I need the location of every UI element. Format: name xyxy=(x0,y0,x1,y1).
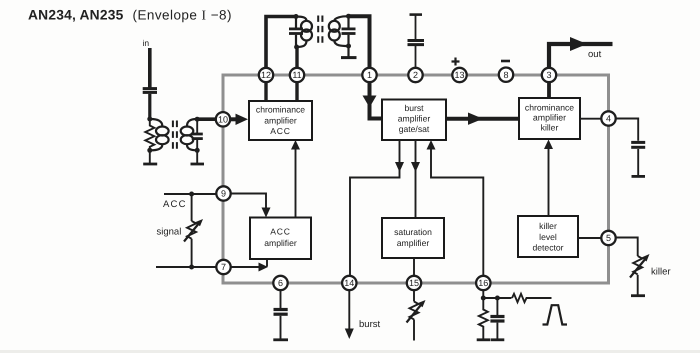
svg-text:15: 15 xyxy=(409,278,419,288)
svg-text:7: 7 xyxy=(221,262,226,272)
pulse waveform symbol xyxy=(543,305,568,324)
svg-text:amplifier: amplifier xyxy=(398,113,431,123)
variable resistor pin 15 xyxy=(407,283,423,341)
junction dots ACC signal xyxy=(189,192,194,270)
series capacitor input xyxy=(143,89,157,119)
svg-text:chrominance: chrominance xyxy=(256,105,305,115)
wire: pin 1 down into burst block with arrow xyxy=(370,75,383,119)
svg-text:amplifier: amplifier xyxy=(397,238,430,248)
ground killer pot xyxy=(631,294,645,297)
block chrominance amplifier killer xyxy=(519,98,580,139)
wire: pin 12 down to chrominance ACC block xyxy=(264,75,267,101)
junction dots pin 16 xyxy=(481,296,500,301)
wire: right tank top to pin 1 xyxy=(349,16,370,75)
wire: pin12 up and over to left tank top xyxy=(266,17,296,76)
title AN234, AN235 (Envelope I-8) xyxy=(28,8,232,23)
ground at pin 4 capacitor xyxy=(632,175,646,178)
wire: killer level detector up arrow into killer amp xyxy=(548,148,550,216)
wire: pin 10 arrow into chrominance ACC block xyxy=(230,117,237,121)
wire: in down to series capacitor xyxy=(148,48,152,88)
svg-text:killer: killer xyxy=(539,221,557,231)
capacitor pin 16 xyxy=(490,298,504,340)
svg-text:3: 3 xyxy=(546,70,551,80)
svg-text:amplifier: amplifier xyxy=(533,112,566,122)
inductor right tank coil xyxy=(329,16,349,46)
wire: killer level detector to pin 5 xyxy=(578,237,609,239)
svg-text:2: 2 xyxy=(413,70,418,80)
wire: pin 16 junction xyxy=(482,283,484,298)
capacitor right tank xyxy=(342,16,356,46)
svg-text:(Envelope I −8): (Envelope I −8) xyxy=(133,8,232,23)
block ACC amplifier xyxy=(250,218,311,260)
wire: burst block down arrow to saturation amplifier xyxy=(415,140,417,218)
wire: pin 5 to killer pot xyxy=(609,238,638,257)
svg-text:detector: detector xyxy=(532,243,563,253)
svg-text:16: 16 xyxy=(478,278,488,288)
svg-text:out: out xyxy=(588,49,602,60)
wire: pin 14 burst arrow down xyxy=(348,283,350,329)
svg-text:5: 5 xyxy=(606,233,611,243)
svg-text:burst: burst xyxy=(404,103,424,113)
svg-text:ACC: ACC xyxy=(163,199,187,210)
svg-text:amplifier: amplifier xyxy=(264,115,297,125)
capacitor at pin 2 with top ground xyxy=(408,15,425,75)
capacitor input secondary xyxy=(192,119,203,150)
plus label above pin 13 xyxy=(452,58,460,66)
svg-text:signal: signal xyxy=(157,227,182,238)
svg-text:level: level xyxy=(539,232,557,242)
wire: pin 9 to ACC amplifier with down arrow xyxy=(224,194,267,209)
svg-text:saturation: saturation xyxy=(394,227,432,237)
variable resistor ACC signal xyxy=(184,194,200,267)
wire: input tank to pin 10 xyxy=(197,117,216,121)
svg-text:AN234, AN235: AN234, AN235 xyxy=(28,8,124,23)
svg-text:ACC: ACC xyxy=(270,227,291,237)
svg-text:in: in xyxy=(143,38,150,48)
inductor input secondary xyxy=(181,119,198,150)
svg-text:9: 9 xyxy=(221,189,226,199)
inductor input primary xyxy=(150,119,169,150)
capacitor left tank xyxy=(289,17,303,48)
pin 14 xyxy=(342,276,356,290)
pin 10 xyxy=(216,112,230,126)
wire: saturation amplifier to pin 15 xyxy=(413,258,415,283)
pin 8 xyxy=(499,68,513,82)
resistor vertical pin 16 xyxy=(477,298,490,340)
wire: pin 7 arrow into ACC amplifier bottom xyxy=(224,266,261,268)
pin 7 xyxy=(216,260,230,274)
svg-text:12: 12 xyxy=(261,70,271,80)
pin 1 xyxy=(362,68,376,82)
wire: burst block down arrow then left to pin 14 xyxy=(350,140,400,283)
pin 11 xyxy=(290,68,304,82)
IC outline xyxy=(223,75,609,283)
pin 13 xyxy=(452,68,466,82)
block killer level detector xyxy=(518,216,578,257)
transformer core dashes input xyxy=(173,121,177,151)
wire: pin 3 up and out with arrow xyxy=(549,44,613,75)
pin 2 xyxy=(408,68,422,82)
inductor left tank coil xyxy=(296,17,312,48)
wire: pin 6 to capacitor and ground xyxy=(273,283,288,340)
wire: pin 16 up and arrow into burst block xyxy=(431,149,483,283)
svg-text:6: 6 xyxy=(278,278,283,288)
svg-text:chrominance: chrominance xyxy=(525,102,574,112)
pin 9 xyxy=(216,186,230,200)
svg-text:killer: killer xyxy=(541,122,559,132)
wire: pin11 up to left tank bottom xyxy=(295,47,298,75)
pin 4 xyxy=(601,111,615,125)
pin 16 xyxy=(476,276,490,290)
wire: pin 3 down to killer amp block xyxy=(547,75,551,98)
svg-text:8: 8 xyxy=(503,70,508,80)
capacitor at pin 4 xyxy=(631,142,645,176)
junction dots top tank xyxy=(294,14,352,50)
block burst amplifier gate/sat xyxy=(382,100,446,141)
block chrominance amplifier ACC xyxy=(249,101,312,140)
svg-text:14: 14 xyxy=(344,278,354,288)
ground right tank xyxy=(341,46,357,58)
pin 5 xyxy=(601,231,615,245)
arrow out xyxy=(570,37,587,51)
wire: ACC line to pin 9 xyxy=(164,193,224,195)
svg-text:killer: killer xyxy=(651,267,671,278)
wire: pin 11 down to chrominance ACC block xyxy=(295,75,298,101)
ground input left xyxy=(143,150,157,164)
scan artifact bottom band xyxy=(0,350,700,353)
svg-text:10: 10 xyxy=(218,115,228,125)
transformer core dashes top xyxy=(318,16,322,45)
wire: killer amp to pin 4 xyxy=(580,118,609,120)
variable resistor killer xyxy=(630,256,647,295)
svg-text:1: 1 xyxy=(367,70,372,80)
svg-text:4: 4 xyxy=(606,114,611,124)
pin 12 xyxy=(259,68,273,82)
resistor horizontal pin 16 xyxy=(512,294,552,302)
pin 15 xyxy=(407,276,421,290)
pin 3 xyxy=(542,68,556,82)
svg-text:11: 11 xyxy=(292,70,301,80)
ground input right xyxy=(191,150,205,164)
svg-text:ACC: ACC xyxy=(270,126,291,136)
block saturation amplifier xyxy=(382,218,444,258)
pin 6 xyxy=(273,276,287,290)
wire: burst block to killer amp block with arrow xyxy=(446,117,519,121)
wire: pin 4 to external capacitor xyxy=(609,119,639,141)
junction dots input xyxy=(147,117,199,153)
svg-text:amplifier: amplifier xyxy=(264,238,297,248)
wire: ACC amplifier up into chrominance ACC with arrow xyxy=(295,149,297,218)
svg-text:gate/sat: gate/sat xyxy=(399,124,430,134)
svg-text:burst: burst xyxy=(359,319,380,330)
resistor input shunt xyxy=(145,119,154,150)
minus label above pin 8 xyxy=(501,60,510,63)
svg-text:13: 13 xyxy=(454,70,464,80)
wire: signal line to pin 7 xyxy=(156,266,224,268)
